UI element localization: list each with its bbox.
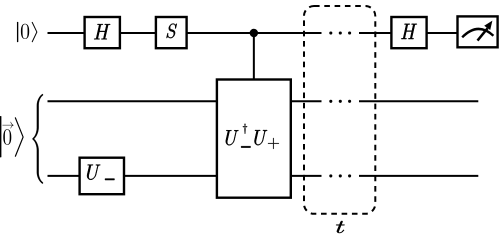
control dot	[250, 29, 258, 37]
wire qubit segment e	[426, 32, 458, 34]
wire qubit segment c	[186, 32, 322, 34]
wire register-1 segment c	[359, 100, 478, 102]
cdots wire3	[329, 174, 351, 177]
wire register-2 segment c	[290, 175, 322, 177]
wire qubit segment a	[48, 32, 86, 34]
wire register-2 segment a	[48, 175, 82, 177]
wire register-2 segment b	[123, 175, 218, 177]
wire qubit segment d	[359, 32, 392, 34]
t label	[336, 221, 345, 233]
dashed time box	[304, 6, 375, 214]
gate S	[156, 17, 187, 48]
wire qubit segment b	[119, 32, 157, 34]
cdots wire1	[329, 31, 351, 34]
wire register-2 segment d	[359, 175, 478, 177]
ket |0&gt; label on qubit wire	[17, 22, 37, 42]
gate H (second)	[391, 17, 426, 48]
gate U_minus	[80, 158, 124, 195]
register brace	[33, 94, 44, 184]
ket |vec 0&gt; label on register	[0, 116, 24, 158]
control vertical wire	[253, 33, 255, 80]
controlled big gate U-dagger-minus U-plus	[217, 80, 291, 198]
wire register-1 segment b	[290, 100, 322, 102]
wire register-1 segment a	[48, 100, 219, 102]
cdots wire2	[329, 100, 351, 103]
measurement meter	[458, 16, 498, 47]
gate H (first)	[85, 17, 120, 48]
